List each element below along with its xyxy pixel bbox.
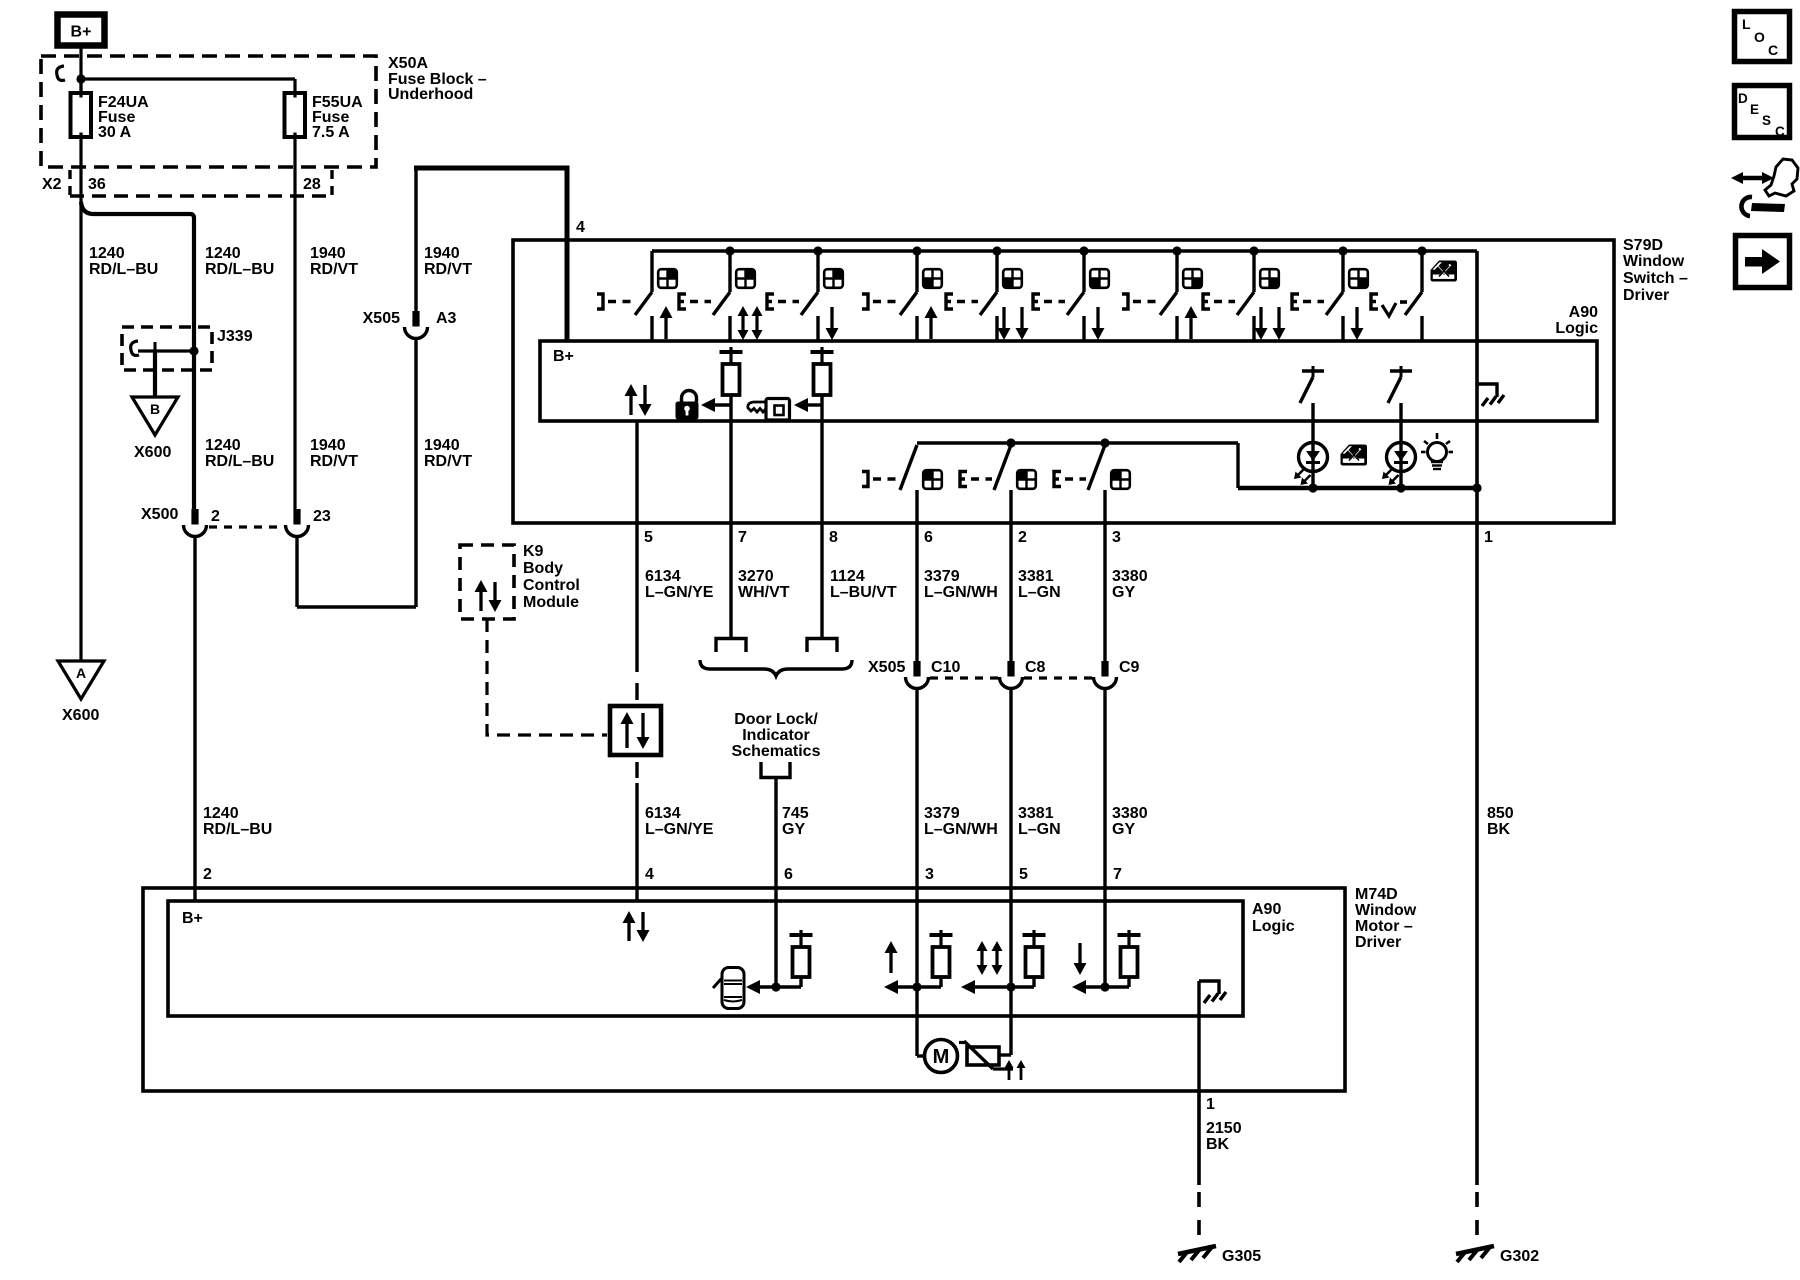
svg-text:L–GN/YE: L–GN/YE [645,821,714,838]
svg-text:C8: C8 [1025,659,1046,676]
svg-text:1: 1 [1206,1096,1215,1113]
svg-text:X2: X2 [42,176,62,193]
svg-text:7: 7 [1113,866,1122,883]
svg-text:RD/VT: RD/VT [424,261,472,278]
svg-text:X505: X505 [868,659,905,676]
svg-text:X50A: X50A [388,55,428,72]
svg-text:Switch –: Switch – [1623,270,1688,287]
svg-text:K9: K9 [523,543,544,560]
svg-text:C10: C10 [931,659,960,676]
svg-text:Underhood: Underhood [388,86,473,103]
svg-text:30 A: 30 A [98,124,132,141]
svg-text:L–BU/VT: L–BU/VT [830,584,897,601]
svg-text:Door Lock/: Door Lock/ [734,711,818,728]
svg-text:3379: 3379 [924,568,960,585]
svg-text:Window: Window [1355,902,1417,919]
svg-text:C: C [1768,42,1778,58]
svg-text:GY: GY [1112,821,1135,838]
svg-text:L–GN: L–GN [1018,821,1061,838]
svg-text:D: D [1738,91,1748,106]
svg-text:BK: BK [1487,821,1511,838]
svg-text:5: 5 [644,529,653,546]
svg-text:1940: 1940 [310,437,346,454]
svg-text:23: 23 [313,508,331,525]
svg-text:7: 7 [738,529,747,546]
svg-text:8: 8 [829,529,838,546]
svg-text:1: 1 [1484,529,1493,546]
svg-text:4: 4 [645,866,654,883]
svg-text:L–GN/YE: L–GN/YE [645,584,714,601]
svg-text:B+: B+ [553,348,574,365]
svg-text:1940: 1940 [424,245,460,262]
svg-text:3380: 3380 [1112,568,1148,585]
svg-text:850: 850 [1487,805,1514,822]
svg-text:4: 4 [576,219,585,236]
svg-text:3381: 3381 [1018,568,1054,585]
svg-text:1240: 1240 [205,437,241,454]
svg-text:L–GN: L–GN [1018,584,1061,601]
svg-text:A90: A90 [1569,304,1598,321]
svg-text:2: 2 [1018,529,1027,546]
svg-text:RD/L–BU: RD/L–BU [203,821,272,838]
svg-text:1940: 1940 [424,437,460,454]
svg-text:G302: G302 [1500,1248,1539,1265]
svg-text:1240: 1240 [205,245,241,262]
svg-text:6: 6 [784,866,793,883]
svg-text:BK: BK [1206,1136,1230,1153]
svg-text:Driver: Driver [1623,287,1669,304]
svg-text:Schematics: Schematics [732,743,821,760]
svg-text:Indicator: Indicator [742,727,810,744]
svg-text:B+: B+ [71,24,92,41]
svg-text:E: E [1750,102,1759,117]
svg-text:3380: 3380 [1112,805,1148,822]
svg-text:745: 745 [782,805,809,822]
svg-text:G305: G305 [1222,1248,1261,1265]
svg-text:RD/VT: RD/VT [310,453,358,470]
svg-text:3: 3 [925,866,934,883]
svg-text:L–GN/WH: L–GN/WH [924,584,998,601]
svg-text:Motor –: Motor – [1355,918,1413,935]
svg-text:X505: X505 [363,310,400,327]
svg-text:3379: 3379 [924,805,960,822]
svg-text:L: L [1742,16,1751,32]
svg-text:J339: J339 [217,328,253,345]
svg-text:1240: 1240 [203,805,239,822]
svg-text:L–GN/WH: L–GN/WH [924,821,998,838]
svg-text:S: S [1762,113,1771,128]
svg-text:GY: GY [1112,584,1135,601]
svg-text:RD/VT: RD/VT [310,261,358,278]
svg-text:RD/L–BU: RD/L–BU [89,261,158,278]
svg-text:RD/L–BU: RD/L–BU [205,261,274,278]
svg-text:7.5 A: 7.5 A [312,124,350,141]
svg-text:28: 28 [303,176,321,193]
svg-text:3270: 3270 [738,568,774,585]
svg-text:S79D: S79D [1623,237,1663,254]
svg-text:2: 2 [203,866,212,883]
svg-text:A3: A3 [436,310,457,327]
svg-text:RD/L–BU: RD/L–BU [205,453,274,470]
svg-text:B: B [150,401,160,417]
svg-text:6134: 6134 [645,568,681,585]
svg-text:M74D: M74D [1355,886,1398,903]
svg-text:Window: Window [1623,253,1685,270]
svg-text:GY: GY [782,821,805,838]
svg-text:3381: 3381 [1018,805,1054,822]
svg-text:X500: X500 [141,506,178,523]
svg-text:A: A [76,665,86,681]
svg-text:6134: 6134 [645,805,681,822]
svg-text:36: 36 [88,176,106,193]
svg-text:C9: C9 [1119,659,1140,676]
svg-text:1124: 1124 [830,568,865,585]
svg-text:1240: 1240 [89,245,125,262]
svg-text:Control: Control [523,577,580,594]
svg-text:Module: Module [523,594,579,611]
svg-text:2150: 2150 [1206,1120,1242,1137]
svg-text:5: 5 [1019,866,1028,883]
svg-text:3: 3 [1112,529,1121,546]
svg-text:Logic: Logic [1555,320,1598,337]
svg-text:Logic: Logic [1252,918,1295,935]
svg-text:Body: Body [523,560,563,577]
svg-text:X600: X600 [62,707,99,724]
svg-text:C: C [1775,124,1785,139]
svg-text:B+: B+ [182,910,203,927]
svg-text:A90: A90 [1252,901,1281,918]
svg-text:RD/VT: RD/VT [424,453,472,470]
svg-text:M: M [933,1046,950,1068]
svg-text:X600: X600 [134,444,171,461]
svg-text:WH/VT: WH/VT [738,584,790,601]
svg-text:2: 2 [211,508,220,525]
svg-text:6: 6 [924,529,933,546]
svg-text:O: O [1754,29,1765,45]
svg-text:1940: 1940 [310,245,346,262]
svg-text:Driver: Driver [1355,934,1401,951]
